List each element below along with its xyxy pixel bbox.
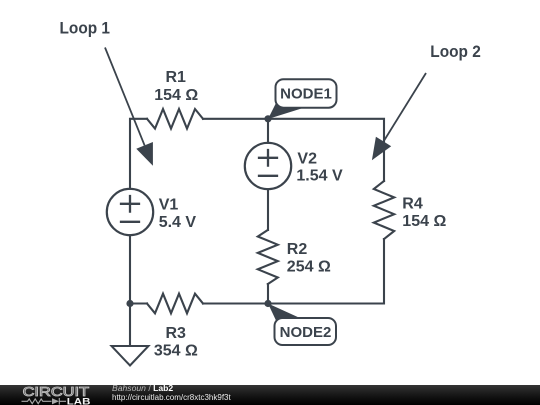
svg-text:154 Ω: 154 Ω — [154, 87, 198, 104]
svg-text:R1: R1 — [165, 69, 186, 86]
svg-text:LAB: LAB — [67, 396, 91, 405]
svg-text:V2: V2 — [297, 150, 317, 167]
svg-text:Loop 2: Loop 2 — [430, 43, 481, 61]
svg-text:1.54 V: 1.54 V — [296, 168, 343, 185]
svg-text:Loop 1: Loop 1 — [60, 19, 111, 37]
svg-text:R2: R2 — [287, 241, 308, 258]
svg-text:R4: R4 — [402, 196, 423, 213]
svg-text:V1: V1 — [159, 196, 179, 213]
svg-text:254 Ω: 254 Ω — [287, 259, 331, 276]
svg-text:154 Ω: 154 Ω — [402, 213, 446, 230]
svg-text:R3: R3 — [165, 325, 186, 342]
svg-text:NODE1: NODE1 — [280, 86, 332, 103]
svg-text:NODE2: NODE2 — [280, 324, 332, 341]
svg-text:354 Ω: 354 Ω — [154, 342, 198, 359]
svg-text:5.4 V: 5.4 V — [159, 214, 197, 231]
